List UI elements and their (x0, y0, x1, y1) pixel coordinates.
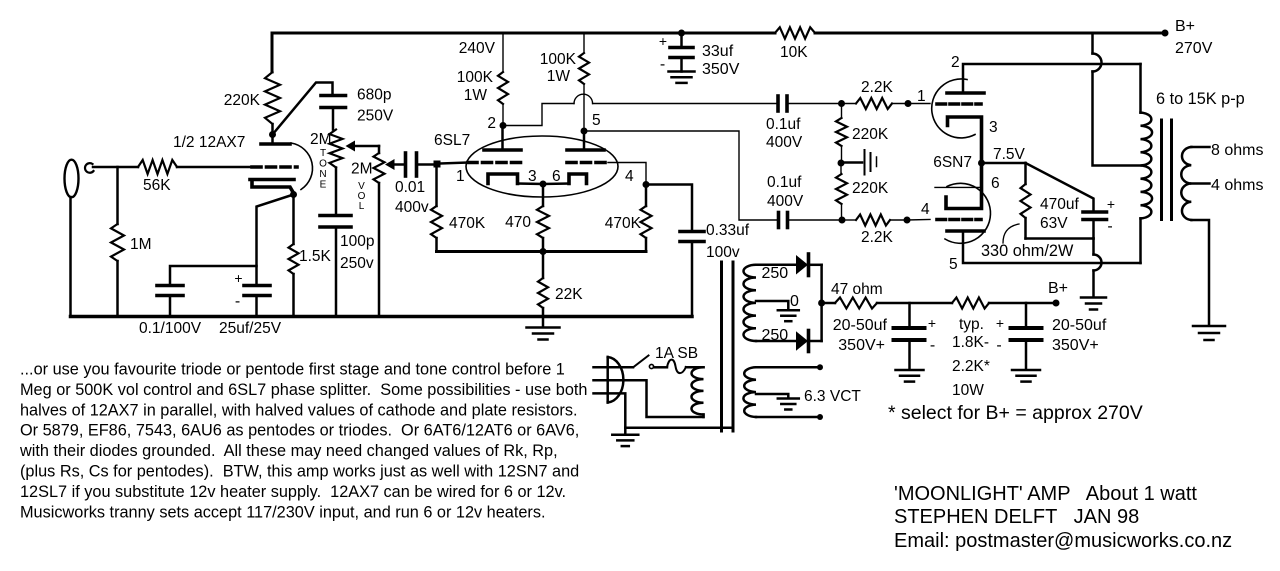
resistor 22K (542, 252, 545, 279)
svg-text:470K: 470K (449, 215, 486, 232)
svg-text:0: 0 (790, 293, 799, 310)
svg-text:10W: 10W (952, 382, 984, 399)
svg-text:250v: 250v (340, 255, 374, 272)
svg-text:Email: postmaster@musicworks.c: Email: postmaster@musicworks.co.nz (894, 530, 1232, 552)
note paragraph (19, 361, 587, 522)
input jack (65, 160, 79, 198)
6SL7 right plate (583, 131, 586, 148)
node 6SN7 grid 2 (904, 217, 911, 224)
switch (634, 356, 649, 368)
wire 4 ohm tap (1191, 182, 1209, 185)
svg-text:6SN7: 6SN7 (933, 154, 972, 171)
potentiometer 2M VOL (378, 146, 381, 153)
capacitor 0.1uf 400V bottom (777, 213, 781, 228)
svg-text:5: 5 (592, 112, 601, 129)
node 6SL7 pin 2 (500, 122, 507, 129)
svg-text:B+: B+ (1048, 280, 1068, 297)
svg-text:2.2K: 2.2K (861, 229, 894, 246)
ground heater center tap (778, 397, 799, 400)
svg-text:100K: 100K (457, 69, 494, 86)
ground OPT secondary (1193, 325, 1225, 328)
svg-text:25uf/25V: 25uf/25V (219, 320, 282, 337)
node top divider (838, 100, 845, 107)
svg-text:T: T (320, 148, 326, 159)
wire B+ drop with hop (1091, 33, 1094, 54)
wire plate to tone network (273, 83, 333, 135)
mains plug (606, 357, 609, 403)
node B+ supply output (1053, 300, 1060, 307)
resistor typ 1.8K-2.2K 10W (952, 298, 989, 309)
label pointer 330 ohm (1003, 224, 1019, 243)
svg-text:33uf: 33uf (702, 43, 734, 60)
tube U3 6SN7 bottom triode envelope (945, 183, 990, 243)
12AX7 cathode (250, 180, 294, 194)
svg-text:1M: 1M (130, 236, 152, 253)
svg-text:2: 2 (951, 54, 960, 71)
wire 8 ohm tap (1191, 146, 1209, 149)
capacitor 680p 250V (321, 94, 346, 98)
svg-text:-: - (1107, 218, 1112, 235)
capacitor 20-50uf 350V+ second (1025, 303, 1028, 326)
svg-text:3: 3 (528, 168, 537, 185)
transformer T2 OPT secondary (1181, 147, 1191, 220)
svg-text:1: 1 (917, 88, 926, 105)
svg-text:B+: B+ (1175, 18, 1195, 35)
node bottom divider (839, 217, 846, 224)
svg-text:+: + (928, 315, 936, 331)
wire bottom ground rail (71, 315, 693, 319)
ground HT center tap (778, 309, 799, 312)
wire HT bottom tap (756, 340, 796, 343)
transformer T1 HT secondary (743, 265, 756, 341)
capacitor 0.1uf 400V top (776, 96, 780, 111)
capacitor 25uf/25V (244, 284, 270, 288)
resistor 2.2K bottom (842, 219, 856, 221)
svg-text:4: 4 (921, 201, 930, 218)
svg-text:0.1uf: 0.1uf (767, 174, 802, 191)
wire mains earth prong (594, 393, 626, 433)
6SN7 bottom cathode (935, 186, 981, 188)
svg-text:220K: 220K (852, 126, 889, 143)
svg-text:4: 4 (625, 168, 634, 185)
node rectifier output (818, 300, 825, 307)
capacitor 100p 250v (335, 168, 338, 215)
ground first filter cap (896, 369, 924, 372)
svg-text:* select for B+ = approx 270V: * select for B+ = approx 270V (888, 402, 1143, 424)
resistor 470 (542, 184, 545, 206)
svg-text:350V+: 350V+ (838, 337, 885, 354)
svg-text:240V: 240V (459, 40, 496, 57)
svg-text:250V: 250V (357, 108, 394, 125)
resistor 220K plate (265, 72, 280, 124)
svg-text:4 ohms: 4 ohms (1211, 177, 1263, 194)
diode D1 (796, 255, 808, 275)
vol wiper arrow (385, 159, 395, 170)
wire mains prong neutral (594, 380, 704, 417)
svg-text:1/2 12AX7: 1/2 12AX7 (173, 134, 245, 151)
svg-text:100v: 100v (706, 244, 740, 261)
svg-text:8 ohms: 8 ohms (1211, 142, 1263, 159)
svg-text:330 ohm/2W: 330 ohm/2W (981, 242, 1074, 260)
node 6SL7 pin 4 (643, 181, 650, 188)
svg-text:STEPHEN DELFT JAN 98: STEPHEN DELFT JAN 98 (894, 506, 1139, 528)
svg-text:220K: 220K (224, 92, 261, 109)
svg-text:Musicworks tranny sets accept: Musicworks tranny sets accept 117/230V i… (20, 503, 546, 521)
wire top supply rail left segment (272, 33, 775, 72)
svg-text:1A SB: 1A SB (655, 345, 698, 362)
ground mains earth (612, 433, 638, 436)
resistor 56K (138, 160, 177, 174)
resistor 2.2K top (842, 103, 857, 105)
svg-text:470: 470 (505, 214, 531, 231)
ground below 470uf (1081, 296, 1106, 299)
12AX7 grid dashed (252, 165, 297, 169)
svg-text:1.8K-: 1.8K- (952, 334, 989, 351)
6SL7 right cathode (569, 174, 587, 184)
wire cap top link (170, 266, 257, 284)
svg-text:3: 3 (989, 119, 998, 136)
capacitor 470uf 63V (1083, 210, 1107, 214)
capacitor divider mid (to right) (841, 161, 862, 164)
svg-text:100p: 100p (340, 233, 374, 250)
wire pin5 output (584, 131, 778, 220)
wire HT center tap (756, 301, 788, 310)
svg-text:20-50uf: 20-50uf (833, 317, 888, 334)
12AX7 plate bar (261, 142, 290, 146)
svg-text:220K: 220K (852, 180, 889, 197)
wire heater top (756, 366, 820, 369)
wire mains prong live (594, 366, 634, 369)
svg-text:Meg or 500K vol control and 6S: Meg or 500K vol control and 6SL7 phase s… (20, 381, 587, 399)
svg-text:470uf: 470uf (1040, 196, 1079, 213)
svg-text:22K: 22K (555, 286, 583, 303)
svg-text:6.3 VCT: 6.3 VCT (804, 388, 861, 405)
node divider mid (838, 160, 845, 167)
tube U3 6SN7 top triode envelope (932, 79, 975, 138)
svg-text:6 to 15K p-p: 6 to 15K p-p (1156, 90, 1245, 108)
resistor 47 ohm (822, 302, 835, 305)
ground below 33uf (669, 70, 695, 73)
wire input (93, 166, 138, 169)
resistor 100K 1W left plate (502, 33, 504, 72)
svg-text:0.01: 0.01 (395, 179, 425, 196)
wire cathode to bypass caps (257, 195, 294, 285)
wire jack sleeve to ground rail (69, 197, 72, 317)
6SN7 top cathode (948, 117, 982, 163)
6SL7 right grid dashed (567, 161, 608, 165)
svg-text:1W: 1W (547, 68, 571, 85)
6SN7 top plate (947, 91, 984, 95)
wire pin2 output with hop (503, 104, 574, 126)
potentiometer 2M TONE (330, 130, 343, 168)
svg-text:0.1uf: 0.1uf (766, 116, 801, 133)
svg-text:6SL7: 6SL7 (434, 132, 470, 149)
svg-text:+: + (996, 315, 1004, 331)
svg-text:12SL7 if you substitute 12v he: 12SL7 if you substitute 12v heater suppl… (20, 483, 566, 501)
svg-text:O: O (319, 159, 327, 170)
6SN7 top grid dashed (908, 103, 930, 105)
svg-text:6: 6 (991, 175, 1000, 192)
resistor 220K bottom (840, 163, 842, 174)
wire earth to core (625, 426, 731, 429)
node bus junction (540, 248, 547, 255)
transformer T2 core (1160, 120, 1163, 220)
svg-text:1W: 1W (464, 87, 488, 104)
resistor 470K left (435, 168, 438, 207)
svg-text:7.5V: 7.5V (993, 146, 1026, 163)
svg-text:halves of 12AX7 in parallel, w: halves of 12AX7 in parallel, with halved… (20, 401, 578, 419)
svg-text:E: E (320, 180, 327, 191)
transformer T2 OPT primary (1139, 64, 1142, 113)
wire heater center tap (756, 394, 788, 398)
svg-text:10K: 10K (780, 44, 808, 61)
transformer T1 heater secondary (743, 367, 756, 417)
node 6SL7 cathodes (540, 181, 547, 188)
svg-text:6: 6 (552, 168, 561, 185)
svg-text:'MOONLIGHT' AMP About 1 watt: 'MOONLIGHT' AMP About 1 watt (894, 483, 1197, 505)
svg-text:400v: 400v (395, 199, 429, 216)
diode D2 (796, 331, 808, 350)
svg-text:1: 1 (456, 168, 465, 185)
svg-text:2M: 2M (351, 161, 373, 178)
resistor 220K top (841, 104, 843, 119)
svg-text:+: + (659, 33, 667, 49)
node grid junction (square) (434, 161, 441, 168)
svg-text:400V: 400V (766, 134, 803, 151)
12AX7 envelope (291, 143, 313, 190)
resistor 10K (in rail) (775, 27, 815, 38)
ground below 22K (527, 326, 560, 329)
svg-text:1.5K: 1.5K (299, 248, 332, 265)
wire heater bottom (756, 416, 820, 419)
6SL7 left grid dashed (468, 161, 521, 165)
svg-text:2.2K: 2.2K (861, 79, 894, 96)
wire 56K to grid (177, 166, 252, 169)
svg-text:270V: 270V (1175, 40, 1213, 57)
resistor 1M (116, 167, 119, 224)
svg-text:with their diodes grounded. A: with their diodes grounded. All these ma… (19, 442, 558, 460)
node B+ terminal top right (1162, 30, 1169, 37)
svg-text:350V: 350V (702, 61, 740, 78)
capacitor 20-50uf 350V+ first (908, 303, 911, 326)
wire 330/470uf bottom (1026, 237, 1094, 240)
node 6SL7 pin 5 (581, 128, 588, 135)
svg-text:63V: 63V (1040, 215, 1068, 232)
svg-text:47 ohm: 47 ohm (831, 281, 883, 298)
wire top supply rail right segment (815, 32, 1165, 35)
wire cathode node right (982, 162, 1026, 165)
svg-text:N: N (319, 169, 326, 180)
svg-text:(plus Rs, Cs for pentodes). B: (plus Rs, Cs for pentodes). BTW, this am… (20, 463, 579, 481)
resistor 1.5K cathode (292, 195, 295, 245)
svg-text:0.33uf: 0.33uf (706, 222, 750, 239)
6SN7 bottom grid dashed (907, 219, 930, 222)
svg-text:5: 5 (949, 256, 958, 273)
jack tip contact hook (85, 163, 94, 173)
resistor 330 ohm (1024, 163, 1027, 184)
capacitor 0.01 400v (404, 153, 408, 176)
6SN7 bottom plate (947, 229, 984, 233)
svg-text:2.2K*: 2.2K* (952, 358, 990, 375)
svg-text:-: - (660, 56, 665, 73)
svg-text:typ.: typ. (959, 316, 984, 333)
wire pin4 to 0.33uf (646, 185, 692, 231)
svg-text:+: + (1107, 196, 1115, 212)
ground second filter cap (1012, 369, 1040, 372)
svg-text:...or use you favourite triode: ...or use you favourite triode or pentod… (20, 361, 565, 379)
wire diode bus (820, 265, 823, 341)
svg-text:100K: 100K (540, 51, 577, 68)
tone wiper arrow (346, 141, 356, 152)
svg-text:2: 2 (487, 115, 496, 132)
6SL7 left plate (501, 126, 504, 149)
transformer T1 primary (692, 367, 704, 414)
resistor 100K 1W right plate (583, 33, 585, 53)
svg-text:470K: 470K (605, 215, 642, 232)
transformer T1 core (720, 262, 723, 431)
svg-text:56K: 56K (143, 177, 171, 194)
svg-text:250: 250 (762, 265, 789, 282)
wire right grid to pin4 (608, 163, 646, 185)
wire cathode bus (437, 250, 647, 253)
capacitor 33uf 350V (678, 30, 685, 37)
svg-text:L: L (359, 201, 365, 212)
capacitor 0.33uf 100v (680, 230, 704, 234)
wire HT top tap (756, 264, 796, 267)
tube U2 6SL7 envelope (466, 136, 618, 197)
capacitor 0.1/100V (157, 284, 183, 288)
svg-text:+: + (234, 270, 242, 286)
fuse 1A SB (654, 366, 667, 369)
svg-text:2M: 2M (310, 131, 332, 148)
svg-text:0.1/100V: 0.1/100V (139, 320, 202, 337)
svg-text:400V: 400V (767, 193, 804, 210)
wire to ground with hop (1092, 239, 1095, 255)
svg-text:-: - (930, 337, 935, 354)
svg-text:350V+: 350V+ (1052, 337, 1099, 354)
resistor 470K right (645, 185, 648, 207)
6SL7 left cathode (488, 174, 518, 184)
svg-text:-: - (996, 337, 1001, 354)
svg-text:680p: 680p (357, 87, 391, 104)
node 6SN7 cathodes (978, 160, 985, 167)
wire secondary bottom to ground (1191, 220, 1209, 325)
node 12AX7 cathode (290, 191, 297, 198)
svg-text:-: - (235, 293, 240, 310)
node 6SN7 grid 1 (905, 100, 912, 107)
wire cathode to 470uf (diagonal) (1026, 163, 1094, 211)
svg-text:Or 5879, EF86, 7543, 6AU6 as p: Or 5879, EF86, 7543, 6AU6 as pentodes or… (20, 422, 579, 440)
node 12AX7 plate (269, 131, 276, 138)
svg-text:20-50uf: 20-50uf (1052, 317, 1107, 334)
